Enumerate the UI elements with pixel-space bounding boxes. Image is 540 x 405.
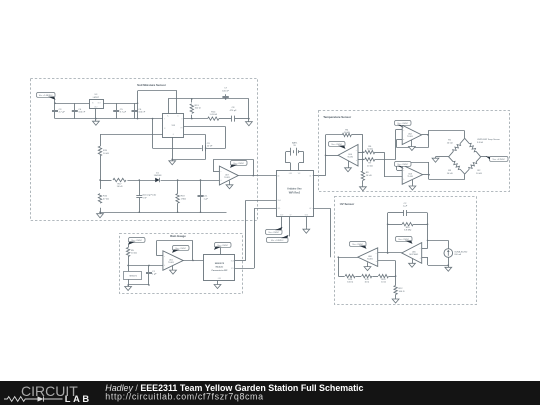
- wire right vertical: [362, 135, 364, 167]
- capacitor C1: [148, 265, 150, 272]
- svg-text:200 nA: 200 nA: [454, 253, 461, 256]
- svg-text:GUVA-S12SD: GUVA-S12SD: [454, 250, 468, 253]
- capacitor C2 feedback: [388, 212, 404, 214]
- svg-text:47 kΩ: 47 kΩ: [103, 198, 109, 200]
- Arduino bottom pins: [281, 217, 283, 228]
- svg-text:Sensing Probe: Sensing Probe: [143, 194, 157, 197]
- svg-text:1 MΩ: 1 MΩ: [181, 198, 187, 200]
- svg-text:100 Ω: 100 Ω: [347, 282, 353, 284]
- svg-text:3.3V: 3.3V: [280, 215, 283, 217]
- wire 555 top pin to rail: [168, 99, 170, 113]
- wire U06 + to U05 out: [378, 252, 402, 254]
- wire R7 to U02: [395, 130, 397, 160]
- U03 feedback: [397, 170, 402, 172]
- capacitor C3: [54, 103, 56, 110]
- svg-text:10 kΩ: 10 kΩ: [447, 173, 453, 175]
- svg-text:TL081: TL081: [367, 258, 374, 260]
- op-amp U02: [402, 125, 421, 144]
- svg-text:TH: TH: [180, 128, 182, 130]
- flag Vcc +5VDC arduino: [266, 230, 283, 235]
- flag Vcc rain: [129, 238, 146, 243]
- svg-text:1N4148: 1N4148: [154, 175, 162, 177]
- ground under LM317: [95, 109, 97, 120]
- capacitor C5: [116, 103, 118, 110]
- svg-text:470 pF: 470 pF: [230, 110, 237, 112]
- svg-text:100 Ω: 100 Ω: [399, 291, 405, 293]
- svg-text:10 kΩ: 10 kΩ: [103, 153, 109, 155]
- ground bottom left: [100, 212, 102, 214]
- capacitor C9: [202, 145, 204, 151]
- capacitor C11: [200, 179, 202, 181]
- wire U06 - down: [378, 260, 396, 262]
- svg-text:4.7 µF: 4.7 µF: [59, 112, 66, 114]
- wires Arduino left pins to rain module: [246, 200, 276, 202]
- svg-text:TL081: TL081: [407, 176, 414, 178]
- svg-text:Arduino Uno: Arduino Uno: [287, 188, 302, 191]
- wire U05 - stub: [422, 248, 428, 250]
- svg-text:10 kΩ: 10 kΩ: [366, 175, 372, 177]
- svg-text:http://circuitlab.com/cf7fszr7: http://circuitlab.com/cf7fszr7q8cma: [105, 391, 263, 401]
- svg-text:IN: IN: [92, 102, 94, 104]
- wire top rail: [168, 98, 249, 100]
- 555 timer U2: [163, 114, 184, 138]
- flag Vcc U03: [395, 162, 412, 167]
- ground right of 555: [248, 121, 250, 122]
- flag Vcc module: [220, 248, 222, 254]
- wire U04 out to Arduino: [325, 135, 327, 176]
- ground U07: [229, 181, 231, 185]
- resistor R12: [395, 276, 397, 285]
- svg-text:4.7 µF: 4.7 µF: [120, 112, 127, 114]
- ground R9: [362, 185, 364, 188]
- svg-text:1 µF: 1 µF: [152, 274, 157, 276]
- svg-text:10 Ω: 10 Ω: [381, 282, 386, 284]
- flag Vcc soil input: [37, 93, 56, 98]
- svg-text:10 kΩ: 10 kΩ: [367, 149, 373, 151]
- svg-text:T: T: [164, 118, 165, 120]
- svg-text:Vcc +5VDC: Vcc +5VDC: [268, 232, 279, 234]
- wire mid row: [100, 180, 112, 182]
- svg-text:100 nF: 100 nF: [78, 112, 85, 114]
- wire R6 to U03: [384, 152, 386, 177]
- flag Vcc U07: [231, 161, 248, 166]
- svg-text:Vcc +5VDC: Vcc +5VDC: [233, 163, 244, 165]
- svg-text:100 Ω: 100 Ω: [195, 108, 201, 110]
- resistor R13: [191, 99, 193, 103]
- wire U06 out: [338, 257, 358, 259]
- rain switch SEN0575: [127, 265, 129, 267]
- svg-text:10 kΩ: 10 kΩ: [117, 186, 123, 188]
- wire U01 out: [183, 260, 204, 262]
- svg-text:OUT: OUT: [98, 102, 101, 104]
- svg-text:100 nF: 100 nF: [222, 90, 229, 92]
- wire bottom loop: [153, 148, 202, 150]
- SEN0575 module block: [204, 255, 235, 281]
- resistor R10: [388, 224, 403, 226]
- flag Vcc U04: [329, 142, 346, 147]
- regulator U3 LM317: [90, 100, 104, 109]
- svg-text:TL081: TL081: [168, 262, 175, 264]
- svg-text:Soil Moisture Sensor: Soil Moisture Sensor: [137, 83, 167, 87]
- ground U04: [348, 161, 350, 168]
- op-amp U07: [219, 166, 238, 185]
- svg-text:SEN0575: SEN0575: [129, 275, 137, 277]
- capacitor C8: [231, 116, 233, 122]
- svg-text:Rain Gauge: Rain Gauge: [170, 234, 186, 238]
- svg-text:SCL: SCL: [278, 208, 281, 210]
- op-amp U01: [163, 251, 183, 270]
- svg-text:Vcc +5VDC: Vcc +5VDC: [217, 245, 228, 247]
- wire 555 gnd row: [172, 137, 174, 159]
- svg-text:SEN0575: SEN0575: [215, 263, 225, 265]
- svg-text:Vcc +5VDC: Vcc +5VDC: [397, 164, 408, 166]
- ground rain left: [128, 285, 130, 287]
- flag Vcc U02: [395, 121, 412, 126]
- svg-text:10 Ω: 10 Ω: [364, 282, 369, 284]
- feedback loop U07: [213, 171, 219, 173]
- svg-text:Vcc +3.3VDC: Vcc +3.3VDC: [271, 240, 284, 242]
- logo squiggle resistor diode: [4, 397, 38, 402]
- ground U03: [412, 180, 414, 186]
- section box: Rain Gauge: [120, 234, 243, 294]
- svg-text:Module: Module: [216, 266, 224, 268]
- svg-text:10 kΩ: 10 kΩ: [476, 173, 482, 175]
- wire top power row: [54, 99, 56, 103]
- left rail: [100, 134, 102, 146]
- svg-text:1 µF: 1 µF: [403, 206, 408, 208]
- flag Vcc U01: [173, 246, 190, 251]
- sensing probe cap: [139, 179, 141, 181]
- wire R14 row: [163, 118, 208, 120]
- wire rain bottom: [128, 284, 149, 286]
- svg-text:Vcc +5VDC: Vcc +5VDC: [352, 244, 363, 246]
- bridge temp sensor: [465, 138, 470, 143]
- section box: Temperature Sensor: [319, 111, 510, 192]
- wire Arduino right top to temp: [313, 175, 326, 177]
- wire bottom rail: [100, 212, 227, 214]
- resistor R17: [113, 178, 126, 181]
- svg-text:10 kΩ: 10 kΩ: [447, 142, 453, 144]
- wire Arduino right bottom to UV: [313, 208, 331, 210]
- svg-text:USP10982 Temp Sensor: USP10982 Temp Sensor: [477, 138, 500, 141]
- flag Vcc U06: [350, 242, 367, 247]
- resistor R4 feedback: [326, 134, 343, 136]
- wire U03 out to bridge: [429, 179, 465, 181]
- current source GUVA: [444, 249, 453, 258]
- op-amp U05: [402, 243, 422, 264]
- ground U05: [412, 259, 414, 264]
- svg-text:1 µF: 1 µF: [204, 198, 209, 200]
- svg-text:10 kΩ: 10 kΩ: [367, 165, 373, 167]
- resistor R18: [177, 179, 179, 181]
- svg-text:10 nF: 10 nF: [207, 146, 213, 148]
- resistor R14: [208, 117, 219, 120]
- resistor R16: [98, 194, 101, 203]
- feedback verticals: [387, 213, 389, 253]
- flag Vcc U05: [396, 237, 413, 242]
- svg-text:UV Sensor: UV Sensor: [340, 202, 355, 206]
- wire loop to 555 pin: [137, 91, 139, 119]
- svg-text:SCL: SCL: [231, 268, 234, 270]
- ground U06: [367, 262, 369, 266]
- U01 feedback: [156, 255, 163, 257]
- ground current source: [448, 265, 450, 267]
- ground R12: [395, 298, 397, 299]
- op-amp U03: [402, 165, 422, 184]
- ground under 555: [172, 159, 174, 161]
- svg-text:10 kΩ: 10 kΩ: [131, 253, 137, 255]
- Arduino Uno block: [277, 171, 314, 217]
- svg-text:TL081: TL081: [347, 156, 354, 158]
- svg-text:6.8 MΩ: 6.8 MΩ: [404, 230, 411, 232]
- op-amp U04: [326, 155, 339, 157]
- svg-text:LAB: LAB: [65, 394, 92, 404]
- svg-text:WiFi Rev2: WiFi Rev2: [289, 191, 301, 194]
- svg-text:TL081: TL081: [224, 177, 231, 179]
- svg-text:3.8 kΩ: 3.8 kΩ: [477, 142, 484, 144]
- wire to U01 +: [128, 265, 163, 267]
- resistor row R26 R11 R19: [338, 276, 344, 278]
- U02 feedback: [397, 139, 402, 141]
- svg-text:10 kΩ: 10 kΩ: [344, 132, 350, 134]
- wire 555 right pin 2: [184, 126, 226, 128]
- bridge resistor R1: [460, 138, 465, 143]
- capacitor C6: [134, 103, 136, 110]
- svg-text:BAT1: BAT1: [292, 141, 298, 144]
- flag Vcc +3.3VDC arduino: [267, 238, 289, 243]
- wire U05 + to source bottom: [422, 257, 428, 259]
- ground module: [217, 281, 219, 285]
- svg-text:Converts to I2C: Converts to I2C: [211, 269, 228, 272]
- svg-text:Vcc +5VDC: Vcc +5VDC: [397, 123, 408, 125]
- wire 555 feed: [100, 134, 163, 136]
- ground arduino: [306, 228, 308, 229]
- svg-text:5V: 5V: [290, 215, 292, 217]
- section box: UV Sensor: [335, 197, 477, 305]
- module right pins: [235, 260, 246, 262]
- resistor R5: [128, 243, 130, 247]
- section box: Soil Moisture Sensor: [31, 79, 258, 221]
- svg-text:LM317: LM317: [93, 97, 100, 99]
- svg-text:Vcc +5VDC: Vcc +5VDC: [131, 240, 142, 242]
- resistor R6: [363, 152, 365, 154]
- bridge resistor R2: [476, 157, 481, 162]
- capacitor C4: [74, 103, 76, 110]
- ground U02: [411, 140, 413, 147]
- svg-text:TL081: TL081: [407, 136, 414, 138]
- wire U07 out to Arduino: [238, 175, 276, 177]
- bridge resistor R3: [449, 157, 454, 162]
- svg-text:100 nF: 100 nF: [138, 112, 145, 114]
- diode D1: [155, 178, 159, 182]
- wire to current source top: [428, 240, 449, 242]
- wire U02 out to bridge: [428, 130, 465, 132]
- svg-text:Vcc +5VDC: Vcc +5VDC: [331, 144, 342, 146]
- svg-text:Vcc +5VDC: Vcc +5VDC: [175, 248, 186, 250]
- svg-text:Vcc +5.58VDC: Vcc +5.58VDC: [39, 95, 53, 97]
- resistor R9: [361, 171, 364, 180]
- op-amp U06: [358, 248, 378, 267]
- wire right rail to ground: [248, 99, 250, 121]
- U04 input stubs: [358, 152, 363, 154]
- resistor R15: [98, 146, 101, 155]
- svg-text:Temperature Sensor: Temperature Sensor: [323, 115, 352, 119]
- resistor R7: [363, 159, 365, 161]
- wire bottom power row: [55, 118, 163, 120]
- svg-text:MCP6001: MCP6001: [409, 254, 419, 256]
- wire 555 left pins loop: [152, 119, 154, 149]
- svg-text:V+: V+: [167, 115, 169, 117]
- footer bar: [0, 381, 540, 405]
- capacitor C7: [225, 94, 227, 96]
- svg-text:Vcc +3.3VDC: Vcc +3.3VDC: [492, 159, 505, 161]
- svg-text:1 nF: 1 nF: [143, 197, 148, 199]
- svg-text:1.43 kΩ: 1.43 kΩ: [209, 114, 217, 116]
- ground bridge left: [436, 156, 449, 158]
- flag Vcc bridge right: [481, 156, 487, 158]
- ground U01: [172, 266, 174, 271]
- svg-text:Vcc +5VDC: Vcc +5VDC: [398, 239, 409, 241]
- svg-text:VIN: VIN: [298, 173, 301, 175]
